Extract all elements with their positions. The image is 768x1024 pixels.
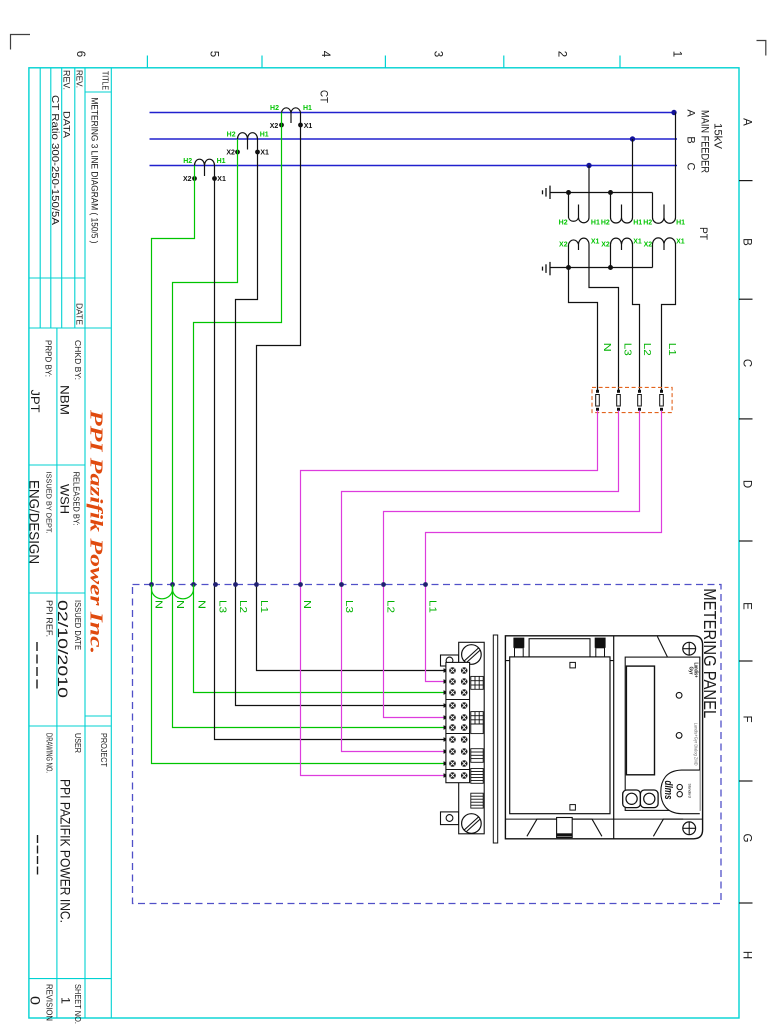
meter foot right [653,819,683,836]
node PT X2 common b [608,265,613,270]
CT phase C coil [195,159,215,176]
svg-text:B: B [741,238,753,246]
svg-text:X1: X1 [217,176,226,183]
svg-text:L2: L2 [641,343,652,357]
wire green CT B X2 to meter terminal 6 [173,139,445,728]
case screw bottom-right [683,822,696,835]
svg-text:PROJECT: PROJECT [99,733,109,767]
terminal strip mounting plate [459,642,485,834]
svg-text:15kV: 15kV [712,123,724,150]
svg-text:CT: CT [318,90,330,103]
svg-text:H1: H1 [260,132,269,139]
connector comb 3 [471,724,483,734]
svg-text:H1: H1 [676,220,685,227]
wire arrowheads at meter terminals [444,668,449,777]
svg-text:RELEASED BY:: RELEASED BY: [72,472,82,526]
connector comb 6 [471,793,483,808]
meter top-right slant [657,637,668,659]
PT winding 3 secondary [653,238,676,390]
svg-text:X1: X1 [304,123,313,130]
svg-text:A: A [741,118,753,126]
svg-text:B: B [685,136,697,143]
svg-text:ENG/DESIGN: ENG/DESIGN [27,480,43,564]
svg-text:TITLE: TITLE [101,71,111,90]
svg-text:H2: H2 [601,220,610,227]
svg-text:NBM: NBM [58,385,72,415]
fuse block dashed box [592,387,672,412]
svg-text:X2: X2 [601,242,610,249]
wire PT neutral to fuse [569,268,598,391]
wire black CT B X1 to meter terminal 4 [236,139,445,706]
svg-text:PPI Pazifik Power Inc.: PPI Pazifik Power Inc. [87,409,107,654]
svg-text:X2: X2 [559,242,568,249]
title block texts [27,70,111,1024]
connector comb 2 [471,712,483,724]
svg-text:2: 2 [556,51,568,57]
terminal block body [446,662,470,782]
node CT A X2 [279,123,284,128]
PPI REF dashes [36,642,38,689]
PT winding 1 secondary [569,238,619,390]
LED 2 [676,733,682,739]
dlms badge [661,770,700,814]
svg-text:N: N [195,600,206,609]
bus B phase conductor [150,138,678,140]
svg-text:D: D [741,480,753,488]
svg-text:N: N [174,600,185,609]
PT secondary labels [559,239,685,249]
border zone letters A..H [741,118,753,959]
svg-text:CT Ratio 300-250-150/5A: CT Ratio 300-250-150/5A [49,95,60,226]
svg-text:X1: X1 [260,150,269,157]
dlms dots [677,784,682,789]
svg-text:X1: X1 [591,239,600,246]
svg-text:L1: L1 [666,343,677,357]
svg-text:CHKD BY:: CHKD BY: [73,340,83,380]
DIN rail bracket [493,635,497,843]
svg-text:X1: X1 [633,239,642,246]
fuse F3 L2 [638,390,642,410]
svg-text:E: E [741,602,753,610]
svg-text:L2: L2 [237,600,248,614]
svg-text:F: F [741,715,753,722]
svg-text:L3: L3 [622,343,633,357]
button 2 [640,790,658,808]
svg-text:Gyr: Gyr [688,667,694,675]
terminal strip bottom tab [441,812,459,825]
wire green CT A X2 to meter terminal 3 [194,113,445,693]
svg-text:N: N [601,343,612,352]
meter display window [626,666,654,775]
meter top band line [505,660,613,662]
corner trim mark top-right [757,41,766,56]
wire magenta L3 fuse to meter terminal 8 [342,411,619,752]
meter body outline [505,636,702,839]
meter hanger black square 1 [513,638,524,648]
svg-text:REV.: REV. [61,70,72,90]
svg-text:X2: X2 [270,123,279,130]
terminal strip top tab [441,655,459,666]
meter section divider [613,636,615,839]
fuse F1 N [596,390,600,410]
svg-text:H1: H1 [303,105,312,112]
PT winding 1 primary [569,166,590,223]
border zone ticks right edge [739,181,753,903]
svg-text:4: 4 [319,51,331,58]
svg-text:L1: L1 [426,600,437,614]
meter hanger black square 2 [595,638,606,648]
wire green CT C X2 to meter terminal 9 [152,166,445,764]
metering panel dashed boundary [133,585,722,904]
svg-text:METERING 3 LINE DIAGRAM ( 150/: METERING 3 LINE DIAGRAM ( 150/5 ) [89,98,100,244]
PT X-side ground [543,262,551,275]
svg-text:N: N [301,600,312,609]
PT H-side ground [543,186,551,199]
DRAWING NO dashes [37,835,39,875]
svg-text:USER: USER [73,733,83,753]
PT X common line [550,267,653,269]
svg-text:A: A [685,109,697,117]
svg-text:REVISION: REVISION [45,984,55,1021]
svg-text:PRPD BY:: PRPD BY: [44,340,54,377]
svg-text:C: C [741,359,753,367]
PT winding 3 primary [653,113,676,224]
fuse F2 L3 [617,390,621,410]
PT primary labels [559,220,686,227]
svg-text:SHEET NO.: SHEET NO. [73,984,83,1024]
svg-text:H1: H1 [591,220,600,227]
PT winding 2 primary [611,139,633,223]
svg-text:ISSUED DATE: ISSUED DATE [73,600,83,650]
wire black CT C X1 to meter terminal 7 [215,166,445,740]
svg-text:L3: L3 [343,600,354,614]
node CT C X2 [192,176,197,181]
node CT B X1 [255,150,260,155]
fuse F4 L1 [660,390,664,410]
svg-text:02/10/2010: 02/10/2010 [55,600,71,698]
wire black CT A X1 to meter terminal 1 [257,113,445,671]
meter faceplate [625,657,700,810]
meter bottom band line [505,818,702,820]
wire magenta L2 fuse to meter terminal 5 [384,411,640,718]
svg-text:Standard: Standard [688,784,692,798]
neutral jumper loop a [152,585,173,599]
svg-text:JPT: JPT [28,390,42,414]
svg-text:H2: H2 [559,220,568,227]
border zone ticks top edge [147,56,620,68]
PT winding 2 secondary [611,238,640,390]
svg-text:G: G [741,834,753,843]
svg-text:L1: L1 [258,600,269,614]
case screw top-right [683,642,696,655]
connector comb 1 [471,676,483,689]
node PT H1 common b [608,190,613,195]
svg-text:H2: H2 [643,220,652,227]
cover screw hole bottom [570,805,576,811]
node CT C X1 [212,176,217,181]
LED 1 [676,692,682,698]
svg-text:C: C [685,163,697,171]
CT phase A coil [282,108,301,123]
svg-text:0: 0 [28,996,44,1005]
svg-text:X1: X1 [676,239,685,246]
connector comb 4 [471,749,483,763]
svg-text:PT: PT [697,227,709,240]
svg-text:H1: H1 [633,220,642,227]
node bus C tap [586,163,591,168]
bus A phase conductor [150,112,676,114]
svg-text:X2: X2 [644,242,653,249]
node bus A tap [671,110,676,115]
svg-text:H1: H1 [217,158,226,165]
mounting screw top [462,645,482,665]
button 1 [623,790,641,808]
svg-text:H2: H2 [270,105,279,112]
meter terminal cover plate [510,657,610,814]
meter seal tab [557,818,573,838]
CT phase B coil [238,133,258,150]
corner trim mark top-left [11,35,31,50]
svg-text:X2: X2 [226,150,235,157]
svg-text:1: 1 [671,51,683,57]
title block grid [29,68,111,1018]
svg-text:X2: X2 [183,176,192,183]
svg-text:REV.: REV. [75,70,85,88]
svg-text:DATE: DATE [75,303,85,325]
svg-text:3: 3 [432,51,444,57]
cover screw hole top [570,662,576,668]
svg-text:5: 5 [208,51,220,57]
svg-text:DATA: DATA [61,111,72,139]
svg-text:1: 1 [59,997,73,1004]
mounting screw bottom [462,814,482,834]
node bus B tap [630,136,635,141]
node PT X2 common a [566,265,571,270]
svg-text:dlms: dlms [662,781,674,800]
connector comb 5 [471,769,483,784]
neutral jumper loop b [173,585,194,599]
meter foot left [527,819,602,836]
wire magenta L1 fuse to meter terminal 2 [426,411,662,682]
svg-text:PPI REF.: PPI REF. [45,600,55,637]
wire magenta N fuse to meter terminal 10 [301,411,598,776]
panel entry labels [153,600,438,614]
node CT B X2 [235,150,240,155]
node PT H1 common a [566,190,571,195]
svg-text:H2: H2 [183,158,192,165]
svg-text:ISSUED BY DEPT.: ISSUED BY DEPT. [45,472,54,534]
svg-text:H2: H2 [227,132,236,139]
svg-text:L2: L2 [384,600,395,614]
PT H common line [550,192,653,194]
svg-text:6: 6 [74,51,86,57]
svg-text:DRAWING NO.: DRAWING NO. [45,733,55,773]
svg-text:H: H [741,951,753,959]
svg-text:N: N [153,600,164,609]
bus C phase conductor [150,165,678,167]
node CT A X1 [298,123,303,128]
meter nameplate window [529,639,590,659]
svg-text:L3: L3 [217,600,228,614]
svg-text:PPI PAZIFIK POWER INC.: PPI PAZIFIK POWER INC. [58,779,74,923]
panel entry nodes [149,582,428,587]
svg-text:Landis+Gyr Dialog ZMD: Landis+Gyr Dialog ZMD [694,723,699,766]
svg-text:WSH: WSH [58,484,72,514]
svg-text:MAIN FEEDER: MAIN FEEDER [699,110,711,173]
terminal screws 10x2 [449,667,467,779]
border zone numbers 6..1 [74,51,683,58]
